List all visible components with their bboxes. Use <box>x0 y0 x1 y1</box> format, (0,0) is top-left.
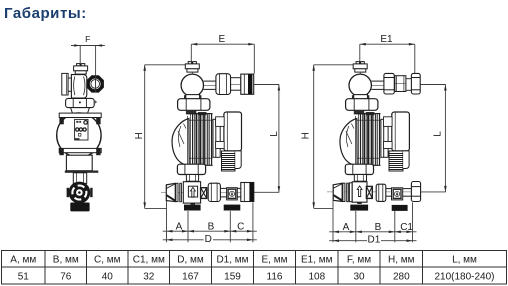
dimension E lines <box>191 44 254 73</box>
terminal box flap <box>235 151 241 169</box>
dimension H arrows <box>143 65 146 209</box>
lower hex fitting right <box>411 182 420 202</box>
pump stator hatch <box>188 114 213 166</box>
air vent stack right <box>353 62 367 97</box>
side port ring <box>87 75 104 92</box>
valve foot tab right <box>357 202 362 204</box>
dark base plate <box>65 171 99 173</box>
svg-text:76: 76 <box>60 271 72 282</box>
table header row text <box>10 254 477 265</box>
svg-text:E, мм: E, мм <box>262 254 288 265</box>
dimension F line <box>71 46 105 93</box>
pipe segment <box>237 188 241 197</box>
valve body <box>183 182 200 203</box>
svg-text:C1: C1 <box>400 222 413 233</box>
top nipple <box>395 76 406 92</box>
valve body right <box>352 182 367 202</box>
svg-text:280: 280 <box>393 271 410 282</box>
bottom valve ring <box>69 182 91 204</box>
air vent stack <box>185 62 199 97</box>
terminal box <box>216 112 242 151</box>
label D <box>204 235 213 243</box>
top hex union nut <box>384 73 394 94</box>
bowtie fitting right <box>366 186 372 198</box>
svg-text:H, мм: H, мм <box>388 254 415 265</box>
extension lines A B C1 D1 <box>329 201 416 243</box>
top right hex nut <box>411 73 420 94</box>
ball valve sphere <box>181 74 203 96</box>
pump motor flange <box>213 119 221 157</box>
table outer border <box>2 250 507 284</box>
hex nut below ball <box>178 99 210 111</box>
bottom pipe axis <box>161 191 254 193</box>
svg-text:C: C <box>237 222 244 233</box>
pump head small parts <box>186 111 196 115</box>
union hex nut <box>66 98 95 107</box>
svg-text:C1, мм: C1, мм <box>133 254 165 265</box>
pump motor flange right <box>381 119 389 157</box>
lower neck <box>73 173 86 184</box>
thermostatic head rims right <box>343 183 345 201</box>
lower end fitting with black band <box>241 183 254 202</box>
svg-text:D, мм: D, мм <box>177 254 204 265</box>
striped plate right <box>349 183 352 202</box>
arrows D1 <box>333 239 413 242</box>
svg-text:E1, мм: E1, мм <box>301 254 333 265</box>
ball valve sphere right <box>349 74 371 96</box>
pipe segment <box>220 188 226 197</box>
table value row text <box>18 271 495 282</box>
union nut lower right <box>376 184 386 201</box>
svg-text:F, мм: F, мм <box>347 254 371 265</box>
pump head small parts right <box>354 111 364 115</box>
svg-text:H: H <box>134 132 145 139</box>
svg-text:D: D <box>205 234 212 245</box>
left black foot right drawing <box>350 205 368 211</box>
svg-text:167: 167 <box>182 271 199 282</box>
air vent stack <box>74 64 88 75</box>
thermostatic head cup <box>166 183 175 201</box>
hex nut below pump right <box>345 164 373 174</box>
flowmeter square right <box>392 188 403 200</box>
svg-text:A, мм: A, мм <box>10 254 36 265</box>
svg-text:E1: E1 <box>380 34 393 45</box>
bowtie fitting <box>201 188 207 199</box>
pump volute right <box>340 119 357 166</box>
svg-text:51: 51 <box>18 271 30 282</box>
pump lower block <box>66 155 92 171</box>
dimension H line <box>145 65 186 209</box>
lower neck right <box>354 175 366 182</box>
flow arrow glyph right <box>357 186 362 197</box>
terminal box right <box>384 112 410 151</box>
svg-text:116: 116 <box>267 271 283 282</box>
bottom pipe axis right <box>327 191 421 193</box>
dimension L line <box>254 85 280 193</box>
valve foot tab <box>191 203 196 205</box>
svg-text:D1, мм: D1, мм <box>216 254 248 265</box>
svg-text:A: A <box>343 222 350 233</box>
pipe to hex nut <box>371 81 384 89</box>
svg-text:108: 108 <box>308 271 325 282</box>
svg-text:30: 30 <box>353 271 365 282</box>
dimension H arrows right <box>312 65 315 209</box>
bottom black foot <box>70 203 89 212</box>
dimension line A B C <box>163 230 257 232</box>
arrows A B C1 <box>333 231 413 234</box>
svg-text:210(180-240): 210(180-240) <box>434 271 494 282</box>
arrows D <box>167 239 253 242</box>
svg-text:32: 32 <box>143 271 155 282</box>
pump top lugs <box>59 118 63 125</box>
collar below ball <box>186 95 200 99</box>
thermostatic head cup right <box>333 183 342 201</box>
svg-text:L: L <box>432 131 443 137</box>
dimension E arrows <box>191 43 254 46</box>
union fitting <box>216 74 231 95</box>
plus mark <box>94 101 97 104</box>
arrows A B C <box>167 230 253 233</box>
flow arrow glyph <box>191 187 196 197</box>
svg-text:L: L <box>269 131 280 137</box>
pump bottom lugs <box>59 148 63 155</box>
dimension H line right <box>314 65 354 209</box>
valve side nubs <box>67 188 69 197</box>
svg-text:D1: D1 <box>368 235 381 246</box>
table column dividers <box>44 250 46 284</box>
svg-text:Габариты:: Габариты: <box>4 5 87 22</box>
pipe segment right <box>403 189 412 197</box>
dimension line D <box>163 239 257 241</box>
pipe segment right <box>386 189 392 197</box>
dimension L arrows right <box>444 85 447 192</box>
dimension L line right <box>420 85 446 192</box>
svg-text:A: A <box>176 222 183 233</box>
svg-text:E: E <box>218 34 225 45</box>
pump body circle <box>57 113 101 157</box>
dimension E1 arrows <box>360 43 415 46</box>
svg-text:159: 159 <box>224 271 241 282</box>
flowmeter square <box>227 188 238 200</box>
svg-text:L, мм: L, мм <box>452 254 477 265</box>
label D1 <box>367 236 381 244</box>
lower neck <box>186 175 198 182</box>
valve body elbow <box>71 75 86 98</box>
end fitting with black band <box>241 74 254 94</box>
dimension F arrows <box>74 44 102 47</box>
union nut lower <box>208 183 220 201</box>
pump label plate <box>75 119 88 140</box>
terminal box fins <box>221 151 235 171</box>
dimension line D1 <box>329 240 416 242</box>
svg-text:B: B <box>208 222 215 233</box>
terminal box flap right <box>403 151 409 169</box>
pump volute <box>172 119 189 166</box>
right black foot right drawing <box>392 205 408 211</box>
right black foot <box>224 205 241 211</box>
svg-text:40: 40 <box>102 271 114 282</box>
svg-text:H: H <box>300 132 311 139</box>
svg-text:F: F <box>85 34 90 44</box>
pump stator hatch right <box>356 114 381 166</box>
svg-text:B: B <box>375 222 382 233</box>
svg-text:B, мм: B, мм <box>53 254 79 265</box>
dimension line A B C1 <box>329 231 416 233</box>
left black foot <box>184 205 201 211</box>
thermostatic head rims <box>176 183 178 201</box>
svg-text:C, мм: C, мм <box>94 254 121 265</box>
pump bottom plate <box>59 148 101 152</box>
short pipe <box>406 79 412 91</box>
hex nut below ball right <box>346 99 378 111</box>
pump neck <box>71 108 90 114</box>
table row divider <box>2 266 507 268</box>
pump top plate <box>59 113 101 117</box>
dimension L arrows <box>278 85 281 193</box>
collar below ball right <box>354 95 368 99</box>
nipple <box>231 78 241 91</box>
dimension E1 lines <box>360 44 415 73</box>
left flange <box>62 73 72 95</box>
hex nut below pump <box>177 164 205 174</box>
extension lines A B C D <box>163 201 257 242</box>
terminal box fins right <box>389 151 403 171</box>
pipe to union <box>203 81 216 89</box>
